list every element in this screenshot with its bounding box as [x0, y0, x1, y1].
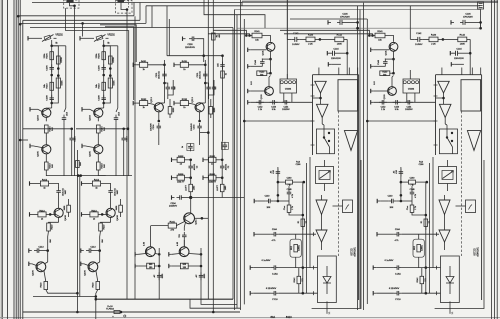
IC U0 right edge [358, 75, 360, 300]
node rail a [77, 174, 82, 177]
transistor Q101-0 [263, 42, 275, 55]
wire box A left [65, 8, 67, 31]
svg-text:0 22U/50V: 0 22U/50V [389, 288, 400, 290]
wire R150-0 [267, 59, 272, 74]
wire QD-QF [100, 222, 111, 245]
wire C140-1 [380, 200, 412, 202]
wire block1 botv [450, 301, 454, 314]
wire h y19 b2 [290, 18, 367, 20]
svg-text:A06/01: A06/01 [421, 245, 424, 251]
node chain mid [102, 74, 105, 77]
transistor Q202 [38, 108, 51, 120]
wire R2k-1 [412, 201, 427, 216]
label C146-0 [340, 14, 350, 19]
wire QG0 rail [158, 248, 160, 299]
capacitor CG-0 [153, 272, 164, 280]
resistor R140-1 [429, 35, 438, 46]
svg-text:VR202: VR202 [55, 34, 63, 37]
wire box A06-1 [418, 234, 420, 267]
resistor R208 [109, 56, 116, 64]
wire QG2 top [183, 240, 185, 247]
label VR202 [107, 34, 115, 37]
svg-text:C216: C216 [75, 136, 77, 142]
wire mid0 top [136, 64, 166, 67]
wire Q103-1 coll [392, 76, 394, 87]
wire QD emitter [58, 218, 60, 223]
label EC100-1 [473, 247, 479, 257]
transistor Q220 [151, 97, 163, 112]
label C204 [169, 203, 178, 208]
op-amp U1d [439, 200, 450, 215]
label 5k [55, 42, 58, 44]
transistor Q207 [106, 208, 119, 220]
label R14C-1 [419, 161, 425, 166]
resistor R210 [44, 82, 54, 90]
wire block0 botv [327, 301, 331, 314]
svg-text:Q203: Q203 [38, 115, 40, 121]
capacitor C216 [121, 135, 128, 143]
svg-text:1k: 1k [182, 146, 184, 148]
resistor R142t-0 [335, 35, 344, 46]
svg-text:56k: 56k [260, 74, 263, 76]
label 0.22u-1 [389, 288, 400, 290]
terminal row1-1 [203, 158, 206, 162]
wire x234.5 [234, 10, 236, 311]
capacitor C207 [108, 187, 119, 195]
wire chain v1 [103, 46, 105, 108]
wire QA collector [46, 107, 51, 109]
svg-text:CY10: CY10 [272, 299, 278, 301]
wire QG0 row2 [138, 265, 160, 268]
svg-text:2 2K: 2 2K [308, 44, 313, 46]
wire QC emitter [198, 112, 201, 122]
terminal Cb1-1 [373, 265, 376, 269]
terminal Q101-0 base [248, 48, 267, 52]
node at P201 [126, 8, 129, 11]
wire QA-QB [97, 133, 99, 145]
bottom wire y312 [23, 311, 240, 314]
capacitor row1b-1 [220, 163, 230, 171]
svg-text:R140: R140 [431, 35, 437, 37]
resistor R154-0 [298, 219, 308, 226]
wire U1e out [444, 242, 446, 250]
wire blk0 inner rail2 [309, 157, 311, 268]
svg-text:C213: C213 [38, 247, 44, 249]
svg-text:EC100: EC100 [350, 248, 352, 256]
node chain top [102, 45, 117, 49]
resistor R141-0 [252, 31, 262, 42]
terminal QG1 base [169, 252, 180, 256]
svg-text:C213: C213 [90, 247, 96, 249]
wire stair bottom2 [201, 299, 237, 304]
terminal Q103-1 base [371, 89, 388, 93]
wire R2k-0 [289, 201, 304, 216]
label C140-0 [265, 196, 271, 198]
svg-text:C204: C204 [170, 203, 176, 205]
op-amp U0b [316, 104, 328, 117]
svg-text:102/50V: 102/50V [169, 206, 178, 208]
capacitor C228 [217, 62, 225, 70]
terminal QB base [30, 144, 42, 148]
bottom small circle [112, 315, 126, 318]
capacitor C230c [165, 80, 176, 99]
svg-text:R141: R141 [254, 31, 260, 33]
wire Cb2-0 [253, 292, 317, 295]
pin tick b2-0 [313, 291, 315, 295]
svg-text:C216: C216 [127, 136, 129, 142]
capacitor C154-0 [282, 100, 290, 111]
IC pin stubs-1 [442, 68, 481, 75]
switch box S1 [439, 129, 457, 154]
wire x360 b2 [359, 10, 361, 309]
wire R212 [85, 184, 111, 189]
wire pot to chain [51, 40, 53, 46]
wire QF collector [45, 262, 48, 264]
riser x140 [139, 3, 141, 21]
capacitor C154-1 [405, 100, 413, 111]
svg-text:R140: R140 [308, 35, 314, 37]
svg-text:LL8TT: LL8TT [217, 184, 219, 191]
svg-text:CN203: CN203 [408, 89, 415, 91]
terminal Q103-0 base [248, 89, 265, 93]
label 0.22u-0 [266, 288, 277, 290]
svg-text:TLP504: TLP504 [106, 309, 114, 311]
wire row2-1 [206, 176, 224, 179]
terminal row3 [172, 195, 175, 199]
wire h y128.8 [76, 128, 129, 131]
wire x233 [232, 28, 234, 300]
resistor R206 [96, 52, 106, 60]
svg-text:4 7k: 4 7k [395, 240, 399, 242]
wire Q211 base [151, 225, 169, 227]
resistor R216 [97, 125, 107, 133]
rheostat box VR-0 [316, 167, 334, 184]
wire blk0 left rail [302, 182, 304, 293]
resistor R219 [47, 223, 54, 231]
svg-text:100K: 100K [460, 44, 466, 46]
terminal QA base [82, 107, 94, 111]
resistor R241 [168, 222, 176, 232]
wire QB emitter [97, 154, 99, 162]
wire c216 [71, 129, 73, 176]
svg-text:R208: R208 [113, 57, 115, 63]
svg-text:C1N8: C1N8 [287, 189, 292, 191]
switch box S0b [343, 200, 353, 213]
capacitor C208 [99, 95, 106, 103]
wire QD emitter [110, 218, 112, 223]
wire x480.6 [480, 9, 482, 28]
resistor R217 col [64, 205, 70, 212]
connector P202 body [66, 0, 73, 3]
node mid1 [204, 82, 207, 85]
svg-text:20N: 20N [390, 207, 394, 209]
wire blk1 inner rail2 [432, 157, 434, 268]
resistor R230 [221, 71, 228, 78]
svg-text:1U/50V: 1U/50V [415, 44, 423, 46]
svg-text:1U/50V: 1U/50V [292, 44, 300, 46]
label VR203 [55, 34, 63, 37]
wire QG1 rail [200, 248, 202, 299]
wire blk1 left rail [425, 182, 427, 293]
wire x287 top [286, 0, 288, 79]
svg-text:2 7k: 2 7k [292, 206, 294, 210]
wire R154-0 [302, 226, 304, 230]
svg-text:5005: 5005 [62, 80, 64, 86]
resistor R219 [99, 223, 106, 231]
resistor R105 [212, 33, 222, 40]
wire stair S1 [100, 25, 136, 62]
top wire y5.8 [146, 5, 480, 7]
svg-text:R232: R232 [141, 99, 147, 101]
wire mid0 vchain [159, 60, 165, 103]
capacitor C146-1 [460, 20, 482, 25]
wire chain v3 [117, 48, 119, 108]
svg-text:4 7k: 4 7k [415, 194, 417, 198]
wire QF out [95, 290, 98, 319]
bottom text 8310 [286, 315, 292, 319]
wire row3 to Q211 [190, 198, 192, 213]
IC U0 top edge [313, 74, 359, 76]
label R14C-0 [296, 161, 302, 166]
resistor R142-0 [294, 276, 304, 283]
diode D0 symbol [323, 266, 331, 294]
capacitor C162-1 [410, 189, 417, 198]
svg-text:CN203: CN203 [285, 89, 292, 91]
wire c214 down [115, 123, 117, 176]
wire R234 [210, 99, 212, 118]
resistor R232 [140, 99, 148, 109]
svg-text:C1AA: C1AA [272, 272, 278, 275]
capacitor C148-0 [255, 59, 265, 67]
wire R217 [68, 199, 70, 217]
node chain low [50, 102, 53, 105]
bus junction node 1 [17, 15, 20, 18]
svg-text:R212: R212 [42, 180, 48, 182]
svg-text:A06/01: A06/01 [298, 245, 301, 251]
capacitor C144-1 [453, 51, 471, 56]
capacitor C206 [99, 64, 106, 72]
input terminal J1 [80, 36, 83, 40]
svg-text:Q211: Q211 [196, 219, 198, 225]
wire x287-0 top [286, 0, 288, 39]
svg-text:EC100: EC100 [473, 248, 475, 256]
svg-text:Q408: Q408 [65, 215, 67, 221]
pot VR203 [42, 35, 57, 42]
svg-text:R141: R141 [377, 31, 383, 33]
long wire x213 [212, 0, 214, 312]
wire h y23.4 [20, 22, 146, 24]
wire CN-0 pin [286, 74, 288, 79]
resistor R420 [93, 282, 100, 290]
transistor Q101-1 [386, 42, 398, 55]
capacitor C251 [221, 142, 228, 150]
svg-text:VR202: VR202 [107, 34, 115, 37]
svg-text:9912: 9912 [414, 246, 416, 250]
scan edge bottom [0, 317, 500, 319]
IC U0 inner block [338, 80, 358, 111]
terminal C226 [183, 37, 186, 41]
wire R140-1 [423, 38, 444, 41]
pin tick C164-1 [436, 232, 438, 236]
svg-text:A05: A05 [217, 63, 220, 66]
svg-text:R208: R208 [61, 57, 63, 63]
wire R142-0 [298, 268, 300, 294]
wire R217 [120, 199, 122, 217]
wire C148-1 h [385, 58, 393, 60]
wire h y30.3 [213, 30, 246, 35]
wire chain v1 [51, 46, 53, 108]
wire VR-1 bot [447, 184, 449, 192]
node chain mid [50, 74, 53, 77]
wire S0b link [333, 205, 343, 207]
transistor Q103-1 [384, 87, 396, 100]
long wire x79.8 [79, 176, 81, 297]
connector P202 wire [70, 3, 75, 6]
wire Cb2-1 [376, 292, 440, 295]
wire x277 rail-0 [277, 167, 279, 201]
wire c213 [94, 245, 101, 262]
label C146-1 [463, 14, 473, 19]
svg-text:80A: 80A [270, 315, 275, 319]
right edge wire 2 [494, 0, 496, 319]
wire U0de [321, 215, 323, 231]
terminal Q101-1 base [371, 48, 390, 52]
op-amp U0a [315, 81, 327, 93]
resistor R150-1 [380, 71, 390, 77]
right edge wire 3 [496, 0, 498, 319]
svg-text:1 1: 1 1 [329, 312, 331, 315]
wire QF emitter [96, 271, 98, 282]
wire VR-1 top [447, 160, 449, 167]
wire row2-0 [175, 176, 193, 179]
resistor R212 [92, 180, 100, 190]
wire U0 mid [313, 93, 322, 104]
wire CN-1 down2 [414, 93, 416, 102]
connector CN203-0 [280, 79, 297, 93]
svg-text:R431: R431 [182, 61, 188, 63]
capacitor C208 [47, 95, 54, 103]
wire c213 [42, 245, 49, 262]
svg-text:R212: R212 [94, 180, 100, 182]
wire CN-1 down1 [406, 93, 408, 102]
wire QF collector [97, 262, 100, 264]
capacitor C226 [185, 36, 197, 49]
wire CN-0 down1 [283, 93, 285, 102]
label N-O-1 [374, 81, 376, 85]
svg-text:C1xx: C1xx [284, 206, 286, 210]
svg-text:3 3k: 3 3k [272, 109, 276, 111]
connector CN203-1 [403, 79, 420, 93]
terminal C148-1 [371, 64, 386, 68]
svg-text:TA7640P: TA7640P [353, 247, 356, 257]
wire h y33.8 [208, 34, 249, 36]
terminal QC base [174, 101, 177, 105]
svg-text:N-O: N-O [374, 81, 376, 85]
svg-text:R206: R206 [99, 53, 101, 59]
node y128.8 [70, 128, 73, 131]
terminal caps-1 [371, 100, 374, 104]
switch box S0 [316, 129, 334, 154]
node y128.8 [122, 128, 125, 131]
wire QA collector [98, 107, 103, 109]
resistor RG-1 [180, 263, 188, 269]
wire c214 down [63, 123, 65, 176]
node block1 in [368, 34, 374, 37]
wire pot to chain [103, 40, 105, 46]
wire C146-0 v [357, 22, 359, 28]
resistor R606-1 [209, 174, 217, 184]
svg-text:C1: C1 [306, 221, 308, 223]
resistor R213 [38, 211, 46, 221]
wire QG1 row2 [172, 265, 203, 268]
wire row3 [185, 196, 193, 199]
wire x244 [243, 19, 245, 304]
terminal Cb2-0 [250, 291, 253, 295]
resistor R213 [90, 211, 98, 221]
op-amp U1e [439, 230, 450, 242]
wire R150-1 [390, 59, 395, 74]
node c146b2 [356, 27, 359, 30]
svg-text:0 22U/50V: 0 22U/50V [266, 288, 277, 290]
wire C146-1 v [480, 22, 482, 28]
svg-text:Q406: Q406 [33, 270, 35, 276]
top wire y2.5 [32, 2, 497, 4]
wire x347-0 [346, 39, 349, 74]
wire x237 [236, 15, 238, 308]
long wire x208 [207, 0, 209, 299]
wire CN-1 pin [409, 70, 411, 79]
capacitor C170-1 [394, 291, 402, 301]
wire x347-1 [469, 39, 472, 74]
transistor Q221 [192, 97, 204, 112]
wire blk1 inner rail1 [429, 163, 431, 293]
transistor Q406 [33, 262, 46, 276]
op-amp U0c big [344, 131, 357, 151]
wire U1d in [444, 195, 446, 200]
wire h y30.3 b2 [280, 30, 369, 35]
svg-text:Q205: Q205 [38, 151, 40, 157]
op-amp U0e [316, 230, 327, 242]
terminal pin row-1 [451, 62, 464, 66]
svg-text:R213: R213 [91, 211, 97, 213]
connector P201 pin dashed [128, 0, 130, 8]
wire h y55.7 [167, 54, 224, 57]
IC U1 top edge [436, 74, 482, 76]
wire Q101-0 emitter [269, 51, 272, 60]
wire S1b link [456, 205, 466, 207]
label C144-0 [331, 48, 341, 60]
connector P201 dashed box [116, 1, 133, 14]
riser x152 [151, 6, 153, 28]
bus junction node 2 [19, 23, 22, 26]
component box A06-0 [290, 239, 301, 257]
svg-text:R1: R1 [298, 221, 300, 223]
wire h y15.8 [18, 15, 134, 17]
resistor R602-1 [209, 156, 216, 166]
capacitor C206 [47, 64, 54, 72]
svg-text:C1AA: C1AA [395, 272, 401, 275]
resistor R217 col [116, 205, 122, 212]
wire row3 right [191, 197, 245, 199]
terminal R212 [30, 181, 33, 185]
wire S1 out [452, 147, 454, 154]
IC U0 inner dashed [338, 111, 340, 256]
terminal R212 [82, 181, 85, 185]
op-amp U1c big [467, 131, 480, 151]
wire QF emitter [44, 271, 46, 282]
terminal QD base [30, 212, 33, 216]
node m1-1 [400, 181, 403, 203]
